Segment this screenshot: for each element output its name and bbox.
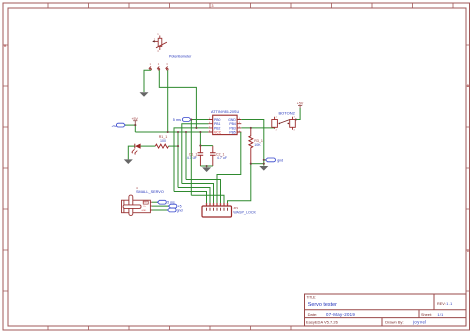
wire +5V rail to VCC xyxy=(135,131,208,133)
wire +5V2 to JP1 pin5 xyxy=(186,180,221,204)
wire C1 riser xyxy=(199,132,201,146)
junction pot wiper on PB2 net xyxy=(195,127,197,129)
wire netport to +5V node xyxy=(125,124,135,126)
svg-text:4.7 uF: 4.7 uF xyxy=(217,156,228,160)
svg-text:Potentiometer: Potentiometer xyxy=(169,54,192,58)
junction gnd netport node xyxy=(263,159,265,161)
svg-text:REV:: REV: xyxy=(437,302,446,306)
connector P1 pin 3 xyxy=(166,67,169,71)
wire GND pin to ground xyxy=(241,120,263,166)
wire caps bottom link xyxy=(200,166,212,167)
svg-text:07-May-2019: 07-May-2019 xyxy=(326,312,355,317)
svg-text:VCC: VCC xyxy=(214,130,222,134)
U1 pin names xyxy=(214,118,236,135)
IC U1 ATTINY85-20SU xyxy=(208,110,241,135)
wire PB5 to JP1 pin4 xyxy=(217,132,241,203)
svg-text:SIG: SIG xyxy=(143,202,147,204)
svg-text:EasyEDA V5.7.26: EasyEDA V5.7.26 xyxy=(306,320,339,325)
netport +5 at servo xyxy=(169,204,182,208)
junction pot pin3 on +5V rail xyxy=(167,131,169,133)
ground pot xyxy=(140,92,149,97)
svg-text:Date:: Date: xyxy=(308,312,318,317)
wire 5ms netport to PB0 xyxy=(191,119,208,121)
junction caps ground node xyxy=(206,165,208,167)
svg-text:1: 1 xyxy=(157,32,159,36)
netport gnd at IC xyxy=(266,158,284,162)
svg-text:1: 1 xyxy=(276,117,278,119)
svg-text:4.7 uF: 4.7 uF xyxy=(187,156,198,160)
wire pot pin3 to +5V rail xyxy=(167,70,169,132)
wire servo GND xyxy=(152,209,168,211)
connector JP1 WASP_LOCK xyxy=(202,203,257,217)
svg-text:4: 4 xyxy=(294,129,296,131)
capacitor C2_1 4.7uF xyxy=(210,146,228,166)
wire servo SIG xyxy=(152,201,158,203)
junction C1 top xyxy=(199,145,201,147)
wire PB3 to button xyxy=(241,127,274,129)
LED D1 xyxy=(131,144,140,155)
svg-text:PB5: PB5 xyxy=(229,130,236,134)
svg-text:10K: 10K xyxy=(254,143,261,147)
wire +5V second drop xyxy=(185,132,187,180)
wire PB0 to JP1 pin6 xyxy=(191,195,224,203)
svg-text:TITLE:: TITLE: xyxy=(307,295,317,299)
wire PB2 to JP1 pin1 xyxy=(174,192,207,204)
svg-text:2: 2 xyxy=(158,62,160,66)
ground LED xyxy=(124,159,133,164)
netport gnd at servo xyxy=(168,208,183,212)
svg-text:gnd: gnd xyxy=(177,208,183,212)
svg-text:SMALL_SERVO: SMALL_SERVO xyxy=(136,190,164,194)
wire gnd netport stub xyxy=(264,159,266,161)
potentiometer symbol xyxy=(153,36,167,51)
svg-text:joyvel: joyvel xyxy=(412,320,427,325)
junction button to +5V xyxy=(295,118,297,120)
wire LED anode to R1 xyxy=(141,145,156,147)
TITLE BLOCK xyxy=(305,294,467,326)
wire LED cathode to ground xyxy=(128,146,135,159)
svg-text:+5V: +5V xyxy=(297,101,304,105)
zone labels xyxy=(4,4,470,253)
netport 5 ms at PB0 xyxy=(173,118,191,122)
ground IC xyxy=(259,166,268,171)
servo pin names SIG V+ GND xyxy=(141,202,146,212)
wire R3 bottom to gnd column xyxy=(251,163,264,165)
wire PB1 to JP1 pin3 xyxy=(182,184,214,204)
power +5V left xyxy=(131,117,138,125)
wire gnd to JP1 pin7 xyxy=(228,164,251,204)
junction R3 bottom gnd net xyxy=(250,163,252,165)
wire pot pin1 to ground xyxy=(144,70,151,92)
power +5V button xyxy=(297,101,304,108)
svg-text:ATTINY85-20SU: ATTINY85-20SU xyxy=(211,110,239,114)
svg-text:Sheet:: Sheet: xyxy=(421,313,432,317)
wire PB1 net xyxy=(182,124,209,184)
svg-text:1: 1 xyxy=(150,62,152,66)
connector P1 pin 1 xyxy=(149,67,152,71)
netport +5v left xyxy=(112,123,126,128)
U1 pin numbers xyxy=(209,118,241,132)
junction gnd column xyxy=(263,163,265,165)
wire +5V to button xyxy=(295,108,300,120)
junction R1 to +5V riser xyxy=(177,145,179,147)
ground caps xyxy=(202,167,211,172)
svg-text:gnd: gnd xyxy=(277,158,283,162)
button pin numbers xyxy=(276,117,296,132)
svg-text:1/1: 1/1 xyxy=(437,313,443,317)
svg-text:GND: GND xyxy=(141,210,146,212)
svg-text:3: 3 xyxy=(166,62,168,66)
svg-text:WASP_LOCK: WASP_LOCK xyxy=(233,210,256,214)
potentiometer wiper arrowhead xyxy=(152,40,154,42)
svg-text:5 ms: 5 ms xyxy=(173,118,181,122)
wire pot pin2 to PB2 xyxy=(159,70,196,128)
wire +5V down to rail xyxy=(134,125,136,132)
svg-text:3: 3 xyxy=(294,117,296,119)
svg-text:BOTON2: BOTON2 xyxy=(279,110,296,115)
wire +5V to JP1 pin2 xyxy=(178,188,210,204)
resistor R1_1 100 xyxy=(155,135,168,148)
wire PB2 net xyxy=(174,128,208,192)
junction +5V rail riser B xyxy=(185,131,187,133)
junction +5V rail to C1 xyxy=(199,131,201,133)
svg-text:3: 3 xyxy=(157,49,159,53)
svg-text:2: 2 xyxy=(276,129,278,131)
svg-text:1.1: 1.1 xyxy=(446,302,452,306)
svg-text:3: 3 xyxy=(212,4,214,8)
svg-text:Drawn By:: Drawn By: xyxy=(385,320,403,325)
servo M1 SMALL_SERVO xyxy=(122,186,164,215)
wire +5V riser down to JP1 pin2 xyxy=(177,132,179,188)
button BOTON2 xyxy=(272,110,296,131)
junction +5V node xyxy=(134,124,136,126)
netport 5 ms at servo xyxy=(158,200,175,204)
junction +5V rail riser A xyxy=(177,131,179,133)
connector P1 pin 2 xyxy=(157,67,160,71)
wire PB0 drop xyxy=(190,120,192,196)
wire caps top link xyxy=(200,145,212,147)
svg-text:100: 100 xyxy=(160,139,166,143)
resistor R3_1 10K xyxy=(249,128,263,164)
potentiometer pin numbers xyxy=(154,32,159,53)
svg-text:Servo tester: Servo tester xyxy=(308,302,337,308)
wire R1 to +5V riser xyxy=(169,145,179,147)
svg-text:+5v: +5v xyxy=(112,124,117,128)
junction 5ms netport on PB0 net xyxy=(190,118,192,120)
wire servo V+ xyxy=(152,205,169,207)
junction R3 on PB3 net xyxy=(250,127,252,129)
capacitor C1_1 4.7uF xyxy=(187,146,204,166)
